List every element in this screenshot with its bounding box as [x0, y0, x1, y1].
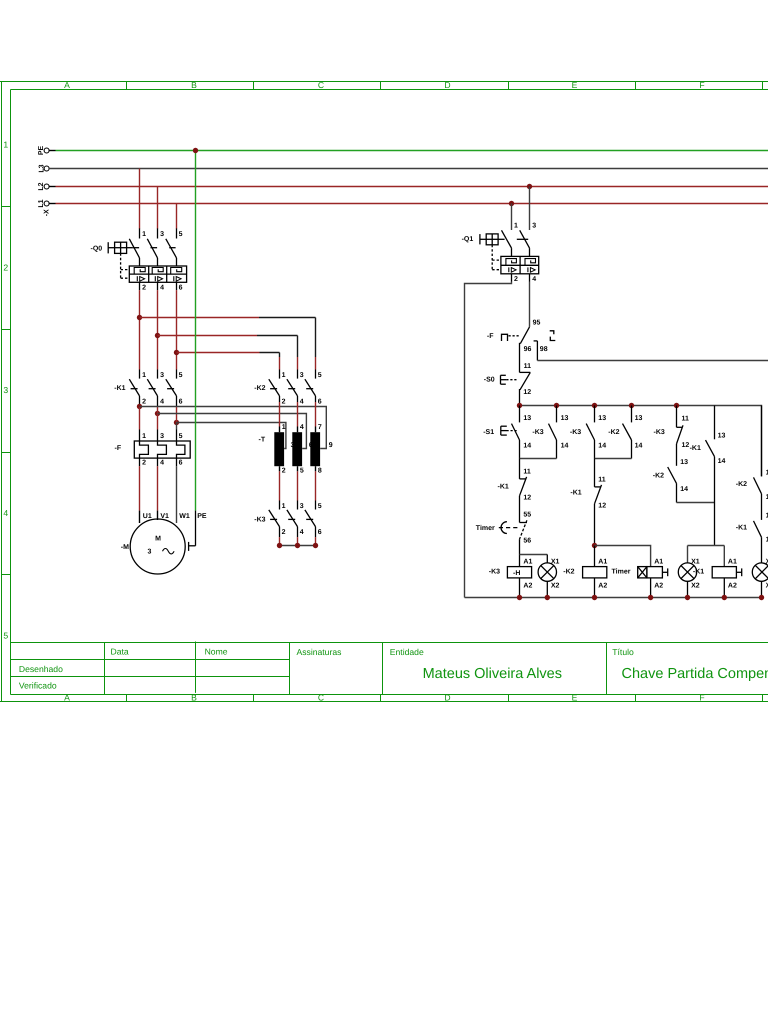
- svg-text:Entidade: Entidade: [390, 647, 424, 657]
- svg-text:X2: X2: [691, 582, 700, 589]
- svg-text:-K2: -K2: [254, 385, 265, 392]
- svg-text:3: 3: [532, 222, 536, 229]
- svg-text:12: 12: [523, 389, 531, 396]
- junction star point 1: [277, 543, 282, 548]
- junction star point 3: [313, 543, 318, 548]
- svg-text:-T: -T: [259, 437, 266, 444]
- stop pushbutton S0: [501, 372, 531, 405]
- svg-text:11: 11: [524, 363, 532, 370]
- junction node F: [174, 420, 179, 425]
- svg-text:A: A: [64, 80, 70, 90]
- wire Q1:4 to F:95: [529, 282, 531, 327]
- svg-text:14: 14: [635, 443, 643, 450]
- wire node C to K2:1: [177, 353, 280, 370]
- wire L2 to Q1:3: [529, 187, 531, 231]
- svg-text:F: F: [699, 692, 704, 702]
- svg-text:L1: L1: [38, 199, 45, 207]
- svg-text:8: 8: [318, 467, 322, 474]
- svg-text:-F: -F: [487, 333, 494, 340]
- svg-text:L2: L2: [38, 182, 45, 190]
- svg-text:3: 3: [148, 549, 152, 556]
- junction node C: [174, 350, 179, 355]
- wire bottom return bus: [465, 597, 762, 599]
- svg-text:98: 98: [540, 346, 548, 353]
- seal-in contact K3 13-14: [549, 406, 557, 459]
- timer delayed contact 55-56: [499, 520, 527, 554]
- svg-text:56: 56: [523, 538, 531, 545]
- svg-text:12: 12: [598, 502, 606, 509]
- svg-text:13: 13: [598, 415, 606, 422]
- svg-text:A2: A2: [523, 582, 532, 589]
- svg-text:12: 12: [682, 442, 690, 449]
- junction bus 2: [554, 403, 559, 408]
- node L2 rail: [38, 182, 768, 190]
- svg-text:-K3: -K3: [570, 429, 581, 436]
- wire PE to motor frame: [189, 511, 196, 551]
- start pushbutton S1: [501, 406, 520, 459]
- overload relay contact F 95-96-98: [502, 327, 556, 373]
- svg-text:D: D: [444, 80, 450, 90]
- svg-text:E: E: [572, 692, 578, 702]
- svg-text:-K1: -K1: [114, 385, 125, 392]
- junction bottom 7: [759, 595, 764, 600]
- svg-text:1: 1: [514, 222, 518, 229]
- svg-text:5: 5: [318, 372, 322, 379]
- wire node A to K2:5: [140, 318, 316, 370]
- junction bottom 5: [685, 595, 690, 600]
- wire node E to T:6: [158, 414, 307, 449]
- svg-text:Timer: Timer: [476, 524, 495, 532]
- svg-text:-X: -X: [44, 209, 51, 216]
- svg-text:Chave Partida Compensadora: Chave Partida Compensadora: [622, 666, 768, 682]
- svg-text:1: 1: [3, 140, 8, 150]
- junction on L2 rail: [527, 184, 532, 189]
- svg-text:1: 1: [282, 503, 286, 510]
- svg-text:1: 1: [142, 433, 146, 440]
- svg-text:2: 2: [142, 460, 146, 467]
- svg-text:6: 6: [318, 529, 322, 536]
- contactor K2 main contacts: [269, 370, 316, 403]
- svg-text:L3: L3: [39, 164, 46, 172]
- svg-text:96: 96: [524, 346, 532, 353]
- contactor coil K1: [712, 567, 742, 598]
- junction bus 5: [674, 403, 679, 408]
- wire branch5 to branch6: [677, 502, 715, 504]
- junction bottom 1: [517, 595, 522, 600]
- svg-text:4: 4: [160, 284, 164, 291]
- junction on PE rail: [193, 148, 198, 153]
- wire S1 K3 join: [520, 458, 557, 460]
- svg-text:Mateus Oliveira Alves: Mateus Oliveira Alves: [423, 666, 562, 682]
- svg-text:-K2: -K2: [563, 569, 574, 576]
- svg-text:3: 3: [160, 372, 164, 379]
- svg-text:A1: A1: [523, 559, 532, 566]
- svg-text:A2: A2: [654, 582, 663, 589]
- svg-text:W1: W1: [179, 513, 190, 520]
- node L1 rail: [38, 199, 768, 207]
- wire F:98 to right: [537, 360, 768, 362]
- thermal overload relay F: [134, 430, 190, 467]
- junction bus 3: [592, 403, 597, 408]
- indicator lamp H3: [752, 563, 768, 598]
- junction bottom 3: [592, 595, 597, 600]
- node PE rail: [38, 146, 768, 156]
- svg-text:5: 5: [179, 372, 183, 379]
- svg-text:2: 2: [282, 529, 286, 536]
- svg-text:3: 3: [300, 372, 304, 379]
- svg-text:Nome: Nome: [205, 647, 228, 657]
- svg-text:2: 2: [282, 467, 286, 474]
- wire L2 to Q0:3: [157, 187, 159, 229]
- svg-text:PE: PE: [38, 146, 45, 156]
- svg-text:Data: Data: [111, 647, 129, 657]
- wire node B to K2:3: [158, 336, 298, 370]
- contactor coil K3: [507, 555, 531, 598]
- contactor coil K2: [583, 546, 607, 598]
- svg-text:E: E: [572, 80, 578, 90]
- svg-text:M: M: [155, 536, 161, 543]
- svg-text:1: 1: [142, 231, 146, 238]
- svg-text:4: 4: [300, 529, 304, 536]
- svg-text:14: 14: [598, 443, 606, 450]
- wire T:2 to K3:1: [279, 471, 281, 500]
- junction node B: [155, 333, 160, 338]
- indicator lamp H2: [678, 563, 696, 598]
- svg-text:13: 13: [523, 415, 531, 422]
- title block: [11, 642, 768, 695]
- svg-text:14: 14: [718, 458, 726, 465]
- svg-text:2: 2: [282, 399, 286, 406]
- svg-text:6: 6: [179, 284, 183, 291]
- svg-text:13: 13: [635, 415, 643, 422]
- svg-text:1: 1: [142, 372, 146, 379]
- junction coil node K2: [592, 543, 597, 548]
- svg-text:Timer: Timer: [612, 568, 631, 576]
- timer relay coil: [638, 567, 668, 598]
- node L3 rail: [39, 164, 768, 172]
- svg-text:C: C: [318, 692, 324, 702]
- svg-text:6: 6: [318, 399, 322, 406]
- svg-text:-K2: -K2: [608, 429, 619, 436]
- wire node F to T:3: [177, 423, 286, 449]
- aux contact K2 13-14 branch5: [668, 444, 677, 503]
- svg-text:5: 5: [318, 503, 322, 510]
- wire K2:6 to T:7: [315, 402, 317, 432]
- wire K1:4 to F:3: [157, 407, 159, 430]
- svg-text:3: 3: [160, 433, 164, 440]
- svg-text:6: 6: [179, 460, 183, 467]
- svg-text:11: 11: [523, 468, 531, 475]
- svg-text:-K3: -K3: [489, 569, 500, 576]
- wire F:2 to motor U1: [139, 466, 141, 523]
- wire L3 to Q0:1: [139, 169, 141, 229]
- svg-text:2: 2: [514, 276, 518, 283]
- svg-text:Verificado: Verificado: [19, 681, 57, 691]
- svg-text:4: 4: [532, 276, 536, 283]
- svg-text:5: 5: [179, 231, 183, 238]
- wire coil K2 to timer coil: [595, 546, 651, 567]
- wire control bus: [520, 406, 762, 477]
- aux contact K3 13-14 branch3: [586, 406, 594, 459]
- svg-text:B: B: [191, 80, 197, 90]
- svg-text:-Q1: -Q1: [462, 236, 474, 243]
- svg-text:A1: A1: [728, 559, 737, 566]
- svg-text:1: 1: [282, 372, 286, 379]
- motor M: [121, 519, 185, 574]
- svg-text:C: C: [318, 80, 324, 90]
- wire F:4 to motor V1: [157, 466, 159, 520]
- wire K2:4 to T:4: [297, 402, 299, 432]
- svg-text:2: 2: [3, 263, 8, 273]
- junction bus 4: [629, 403, 634, 408]
- svg-text:-F: -F: [115, 445, 122, 452]
- svg-text:-K3: -K3: [532, 429, 543, 436]
- junction bottom 4: [648, 595, 653, 600]
- svg-text:4: 4: [160, 460, 164, 467]
- wire T:5 to K3:3: [297, 471, 299, 500]
- svg-text:-K1: -K1: [690, 445, 701, 452]
- junction on L1 rail: [509, 201, 514, 206]
- svg-text:Desenhado: Desenhado: [19, 664, 63, 674]
- aux contact K1 13-14 branch7: [754, 521, 762, 563]
- interlock contact K1 11-12 branch1: [520, 459, 527, 523]
- svg-text:-K2: -K2: [736, 481, 747, 488]
- svg-text:13: 13: [718, 432, 726, 439]
- svg-text:4: 4: [160, 399, 164, 406]
- svg-text:3: 3: [160, 231, 164, 238]
- svg-text:-H: -H: [513, 570, 520, 577]
- svg-text:-K1: -K1: [693, 569, 704, 576]
- wire node to lamp H2 and coil K1: [688, 546, 725, 567]
- junction bottom 6: [722, 595, 727, 600]
- autotransformer T: [259, 424, 333, 474]
- svg-text:-S0: -S0: [484, 376, 495, 383]
- border frame: [0, 82, 768, 702]
- svg-text:3: 3: [3, 385, 8, 395]
- junction node A: [137, 315, 142, 320]
- svg-text:-K1: -K1: [498, 483, 509, 490]
- svg-text:13: 13: [561, 415, 569, 422]
- wire Q0:4 down: [157, 290, 159, 369]
- svg-text:14: 14: [523, 443, 531, 450]
- contactor K3 main contacts: [269, 501, 316, 538]
- junction star point 2: [295, 543, 300, 548]
- svg-text:-K1: -K1: [736, 525, 747, 532]
- svg-text:95: 95: [533, 319, 541, 326]
- aux contact K1 13-14 branch6: [706, 406, 715, 546]
- svg-text:U1: U1: [143, 513, 152, 520]
- svg-text:-K3: -K3: [654, 429, 665, 436]
- interlock contact K1 11-12 branch3: [595, 459, 602, 546]
- wire L1 to Q1:1: [511, 204, 513, 231]
- wire K3 K2 join: [595, 458, 632, 460]
- indicator lamp H1: [538, 555, 556, 598]
- svg-text:A: A: [64, 692, 70, 702]
- svg-text:B: B: [191, 692, 197, 702]
- svg-text:4: 4: [300, 424, 304, 431]
- wire Q0:6 down: [176, 290, 178, 369]
- svg-text:-K3: -K3: [254, 517, 265, 524]
- svg-text:A2: A2: [728, 582, 737, 589]
- svg-text:X1: X1: [551, 559, 560, 566]
- wire F:6 to motor W1: [176, 466, 178, 523]
- wire Q0:2 down: [139, 290, 141, 369]
- svg-text:X1: X1: [691, 559, 700, 566]
- svg-text:2: 2: [142, 284, 146, 291]
- svg-text:5: 5: [300, 467, 304, 474]
- wire K1:6 to F:5: [176, 407, 178, 430]
- svg-text:A2: A2: [598, 582, 607, 589]
- svg-text:14: 14: [680, 486, 688, 493]
- svg-text:13: 13: [680, 459, 688, 466]
- svg-text:F: F: [699, 80, 704, 90]
- svg-text:-K1: -K1: [570, 490, 581, 497]
- svg-text:55: 55: [523, 512, 531, 519]
- circuit breaker Q1: [480, 230, 539, 281]
- junction bus 1: [517, 403, 522, 408]
- junction bottom 2: [545, 595, 550, 600]
- wire coil K3 to lamp H1: [520, 554, 548, 556]
- aux contact K2 13-14 branch7: [754, 406, 762, 520]
- aux contact K2 13-14 branch4: [623, 406, 632, 459]
- svg-text:5: 5: [3, 631, 8, 641]
- svg-text:7: 7: [318, 424, 322, 431]
- svg-text:Título: Título: [612, 647, 634, 657]
- svg-text:2: 2: [142, 399, 146, 406]
- svg-text:X2: X2: [551, 582, 560, 589]
- svg-text:14: 14: [561, 443, 569, 450]
- svg-text:9: 9: [329, 442, 333, 449]
- svg-text:4: 4: [300, 399, 304, 406]
- svg-text:-S1: -S1: [483, 429, 494, 436]
- svg-text:1: 1: [282, 424, 286, 431]
- svg-text:4: 4: [3, 508, 8, 518]
- junction node E: [155, 411, 160, 416]
- svg-text:A1: A1: [598, 559, 607, 566]
- circuit breaker Q0: [108, 228, 186, 290]
- svg-text:3: 3: [300, 503, 304, 510]
- wire Q1:2 to left rail: [465, 282, 512, 598]
- svg-text:D: D: [444, 692, 450, 702]
- wire node D to T:9: [140, 407, 327, 449]
- svg-text:Assinaturas: Assinaturas: [297, 647, 342, 657]
- svg-text:5: 5: [179, 433, 183, 440]
- wire PE drop to motor: [195, 151, 197, 511]
- contactor K1 main contacts: [129, 370, 176, 407]
- wire K2:2 to T:1: [279, 402, 281, 432]
- svg-text:A1: A1: [654, 559, 663, 566]
- wire K1:2 to F:1: [139, 407, 141, 430]
- junction node D: [137, 404, 142, 409]
- wire K3 star bus: [280, 537, 316, 545]
- svg-text:-Q0: -Q0: [91, 245, 103, 252]
- svg-text:-K2: -K2: [653, 472, 664, 479]
- interlock contact K3 11-12 branch5: [677, 406, 684, 444]
- svg-text:6: 6: [179, 399, 183, 406]
- svg-text:11: 11: [598, 476, 606, 483]
- svg-text:PE: PE: [197, 513, 207, 520]
- wire L1 to Q0:5: [176, 204, 178, 229]
- wire T:8 to K3:5: [315, 471, 317, 500]
- svg-text:-M: -M: [121, 544, 129, 551]
- svg-text:11: 11: [682, 415, 690, 422]
- svg-text:12: 12: [523, 494, 531, 501]
